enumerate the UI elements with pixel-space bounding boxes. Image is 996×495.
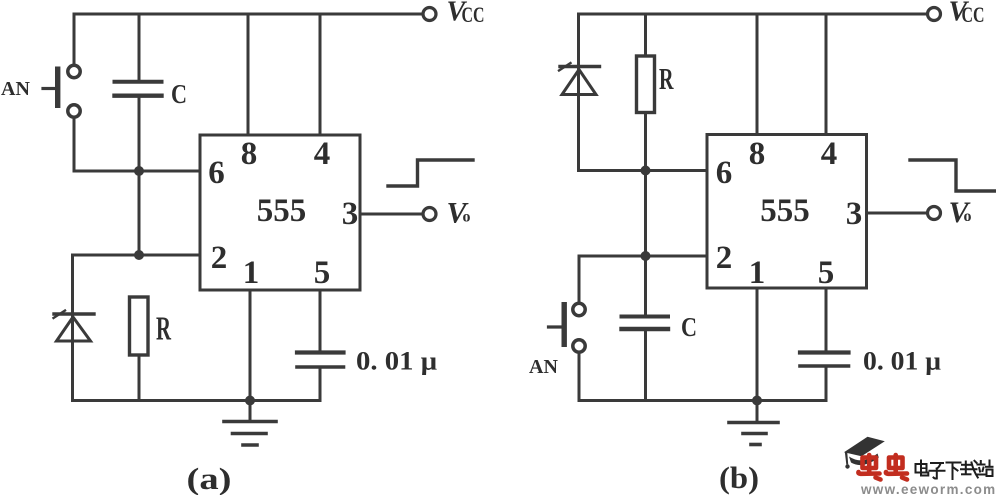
- node: ground junction (b): [752, 396, 762, 406]
- wire: pin8 drop (a): [247, 14, 250, 135]
- svg-text:CC: CC: [962, 2, 985, 27]
- svg-text:2: 2: [716, 240, 733, 276]
- wire: diode column (b): [577, 14, 580, 171]
- resistor R (a): [130, 297, 149, 401]
- label VCC (b): [949, 0, 985, 28]
- wire: node link pin6-pin2 (b): [644, 171, 647, 257]
- ground symbol (a): [224, 401, 276, 446]
- wire: node link pin6-pin2 (a): [138, 171, 141, 255]
- wire: button column top segment (a): [73, 14, 76, 65]
- wire: bottom rail (b): [579, 399, 826, 402]
- terminal VCC (b): [928, 8, 941, 21]
- svg-text:C: C: [681, 312, 697, 342]
- wire: pin5 drop (a): [319, 290, 322, 351]
- label Vo (a): [447, 197, 471, 230]
- IC 555 box U1 (a): [200, 135, 360, 290]
- svg-text:6: 6: [208, 155, 225, 191]
- wire: pin2 row (b): [579, 255, 707, 258]
- svg-text:o: o: [964, 208, 972, 225]
- svg-text:8: 8: [241, 136, 258, 172]
- wire: pin2 row (a): [73, 254, 201, 257]
- svg-text:C: C: [171, 79, 187, 109]
- terminal Vo (a): [423, 208, 436, 221]
- IC 555 box U2 (b): [707, 135, 867, 289]
- node: pin2 junction (a): [134, 250, 144, 260]
- diode D (a): [54, 311, 95, 342]
- wire: top VCC rail (b): [579, 13, 927, 16]
- svg-text:5: 5: [818, 255, 835, 291]
- svg-text:AN: AN: [529, 356, 558, 378]
- svg-text:8: 8: [749, 136, 766, 172]
- watermark text: dian zi xia zai zhan (black site name): [916, 461, 993, 480]
- node: ground junction (a): [245, 396, 255, 406]
- wire: button column top segment (b): [578, 256, 581, 303]
- wire: pin4 drop (b): [825, 14, 828, 135]
- capacitor 0.01u (b): [800, 353, 849, 401]
- svg-text:o: o: [463, 209, 471, 226]
- capacitor C (b): [622, 256, 669, 401]
- wire: top VCC rail (a): [74, 13, 421, 16]
- svg-text:555: 555: [760, 193, 810, 229]
- terminal VCC (a): [423, 8, 436, 21]
- wire: pin4 drop (a): [319, 14, 322, 135]
- node: pin6 junction (a): [134, 166, 144, 176]
- svg-text:1: 1: [749, 255, 766, 291]
- watermark logo: graduation cap: [844, 437, 885, 469]
- wire: pin1 drop (b): [756, 288, 759, 401]
- node: pin6 junction (b): [641, 166, 651, 176]
- wire: pin1 drop (a): [249, 290, 252, 401]
- ground symbol (b): [729, 401, 778, 445]
- label Vo (b): [949, 196, 972, 229]
- watermark text: chong chong (red bug characters): [858, 455, 907, 480]
- wire: pin8 drop (b): [756, 14, 759, 135]
- svg-text:CC: CC: [462, 2, 485, 27]
- svg-text:www.eeworm.com: www.eeworm.com: [860, 482, 996, 495]
- svg-text:2: 2: [211, 240, 228, 276]
- wire: pin6 row (b): [579, 169, 708, 172]
- svg-text:3: 3: [342, 196, 359, 232]
- wire: bottom rail (a): [73, 399, 321, 402]
- wire: pin6 row (a): [74, 170, 200, 173]
- wire: pin5 drop (b): [825, 288, 828, 352]
- node: pin2 junction (b): [641, 251, 651, 261]
- svg-text:6: 6: [716, 155, 733, 191]
- wire: button to bottom rail (b): [578, 353, 581, 401]
- label VCC (a): [447, 0, 485, 28]
- svg-text:(a): (a): [187, 461, 232, 495]
- capacitor C (a): [115, 14, 162, 171]
- svg-text:0. 01 μ: 0. 01 μ: [863, 347, 941, 376]
- svg-text:0. 01 μ: 0. 01 μ: [356, 347, 437, 376]
- pushbutton AN (a): bottom contact: [68, 105, 80, 117]
- svg-text:3: 3: [846, 196, 863, 232]
- svg-text:4: 4: [821, 136, 838, 172]
- svg-text:R: R: [659, 61, 674, 96]
- svg-text:(b): (b): [719, 460, 759, 495]
- pushbutton AN (a): actuator bar: [43, 67, 60, 109]
- waveform rising step (a): [388, 160, 473, 186]
- pushbutton AN (b): bottom contact: [573, 340, 585, 352]
- resistor R (b): [637, 14, 655, 171]
- svg-text:5: 5: [314, 255, 331, 291]
- wire: diode column (a): [71, 255, 74, 401]
- waveform falling step (b): [910, 160, 995, 191]
- diode D (b): [559, 63, 600, 95]
- pushbutton AN (b): top contact: [573, 303, 585, 315]
- wire: button to pin6 row (a): [73, 118, 76, 172]
- wire: pin3 output (a): [360, 213, 422, 216]
- svg-text:4: 4: [314, 136, 331, 172]
- pushbutton AN (b): actuator bar: [549, 302, 567, 347]
- svg-text:AN: AN: [1, 78, 30, 100]
- svg-text:555: 555: [257, 193, 307, 229]
- svg-text:1: 1: [243, 255, 260, 291]
- svg-text:R: R: [156, 311, 171, 348]
- pushbutton AN (a): top contact: [68, 65, 80, 77]
- capacitor 0.01u (a): [297, 353, 344, 401]
- terminal Vo (b): [928, 207, 941, 220]
- wire: pin3 output (b): [867, 212, 927, 215]
- watermark white cap stripe: [850, 451, 878, 458]
